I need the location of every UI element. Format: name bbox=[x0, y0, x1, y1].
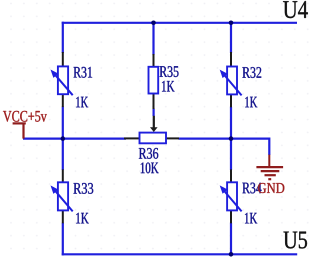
wire left column upper (top rail to R31) bbox=[62, 22, 64, 53]
wire middle column upper (top rail to R35) bbox=[152, 23, 154, 55]
resistor R33 (variable, vertical) bbox=[51, 169, 73, 223]
label VCC+5v bbox=[3, 111, 47, 122]
wire left column middle (R31 to middle rail to R33) bbox=[62, 107, 64, 171]
net label U5 bbox=[284, 232, 308, 249]
junction dot middle rail / left column bbox=[61, 136, 66, 141]
wire top rail (net U4) bbox=[62, 22, 297, 24]
value 10K (R36) bbox=[141, 163, 159, 174]
wire middle rail right (R36 to GND drop) bbox=[179, 138, 270, 156]
resistor R32 (variable, vertical) bbox=[220, 52, 242, 107]
wire left column lower (R33 to bottom rail) bbox=[62, 223, 64, 256]
value 1K (R32) bbox=[245, 97, 257, 108]
junction dot top rail / right column bbox=[229, 21, 234, 26]
wire middle rail left (VCC to R36) bbox=[23, 138, 126, 140]
wire right column upper (top rail to R32) bbox=[230, 22, 232, 53]
potentiometer R36 (horizontal, wiper arrow) bbox=[124, 116, 179, 144]
label R35 bbox=[160, 66, 179, 77]
wire middle column lower (R35 to R36 wiper) bbox=[153, 109, 155, 117]
junction dot middle rail / right column bbox=[229, 136, 234, 141]
value 1K (R35) bbox=[162, 81, 175, 92]
junction dot top rail / middle column bbox=[151, 21, 156, 26]
resistor R34 (variable, vertical) bbox=[220, 169, 242, 223]
wire bottom rail (net U5) bbox=[62, 253, 298, 255]
value 1K (R31) bbox=[76, 97, 88, 108]
wire right column lower (R34 to bottom rail) bbox=[230, 223, 232, 255]
wire right column middle (R32 to middle rail to R34) bbox=[230, 107, 232, 170]
label R32 bbox=[242, 67, 261, 78]
resistor R31 (variable, vertical) bbox=[51, 52, 73, 107]
resistor R35 (fixed, vertical) bbox=[149, 54, 159, 109]
label GND bbox=[258, 183, 284, 193]
ground symbol GND bbox=[256, 155, 283, 180]
label R31 bbox=[74, 67, 93, 78]
label R33 bbox=[74, 183, 94, 194]
junction dot bottom rail / right column bbox=[229, 252, 234, 257]
value 1K (R34) bbox=[245, 213, 257, 224]
label R36 bbox=[139, 148, 158, 159]
power symbol VCC+5v (bar) bbox=[13, 123, 26, 138]
label R34 bbox=[242, 183, 261, 194]
value 1K (R33) bbox=[76, 213, 89, 224]
net label U4 bbox=[283, 1, 308, 18]
